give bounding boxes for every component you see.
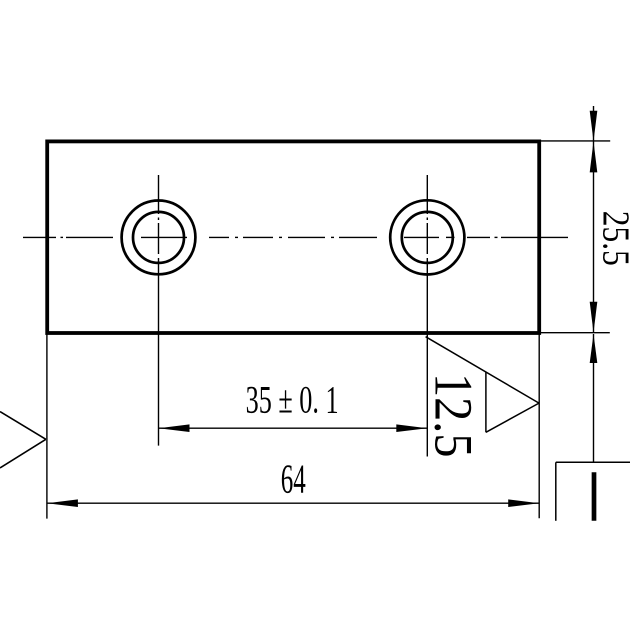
bottom-right thick bar — [592, 472, 597, 521]
big open arrowhead lower barb — [486, 403, 539, 432]
leader line of big open arrow — [426, 337, 539, 403]
dimension 64 line — [47, 502, 539, 504]
dimension 35 right arrowhead — [396, 424, 427, 432]
hole 1 inner circle — [133, 212, 184, 263]
right extension line (shared by 64 and 12.5 leader) — [538, 335, 540, 519]
bottom-right box left edge — [555, 462, 557, 521]
dimension 25.5 vertical line — [593, 141, 595, 332]
bottom extension line of 25.5 dimension — [539, 332, 610, 334]
dimension 35 left arrowhead — [159, 424, 190, 432]
svg-text:64: 64 — [281, 456, 306, 502]
dimension 35 +/- 0.1 line — [159, 427, 428, 429]
bottom-right box top edge — [556, 461, 630, 463]
dimension 64 right arrowhead — [508, 499, 539, 507]
top extension line of 25.5 dimension — [540, 140, 611, 142]
stub line above 25.5 dimension — [593, 106, 595, 141]
plate outline (front view rectangle) — [47, 141, 539, 333]
hole 2 inner circle — [402, 212, 453, 263]
horizontal center line (dash-dot through both holes) — [23, 236, 568, 238]
hole 1 vertical center line / extension line — [158, 175, 160, 446]
svg-text:25.5: 25.5 — [595, 211, 630, 266]
25.5 bottom arrowhead pointing down — [590, 302, 598, 333]
left extension line of 64 dimension — [46, 335, 48, 519]
left cropped open arrowhead upper barb — [0, 412, 46, 440]
hole 2 vertical center line / extension line — [426, 175, 428, 457]
svg-text:35 ± 0. 1: 35 ± 0. 1 — [246, 379, 339, 422]
lower stub line continuing to bottom-right box — [593, 334, 595, 462]
big open arrowhead back edge — [485, 372, 487, 432]
svg-text:12.5: 12.5 — [423, 373, 484, 458]
lower stub arrowhead pointing up below bottom extension — [590, 334, 598, 363]
25.5 top arrowhead pointing up — [590, 141, 598, 172]
dimension 64 left arrowhead — [47, 499, 78, 507]
left cropped open arrowhead lower barb — [0, 439, 46, 468]
stub arrowhead pointing down at top extension — [590, 111, 598, 142]
hole 2 outer circle — [390, 200, 464, 274]
hole 1 outer circle — [122, 201, 196, 275]
